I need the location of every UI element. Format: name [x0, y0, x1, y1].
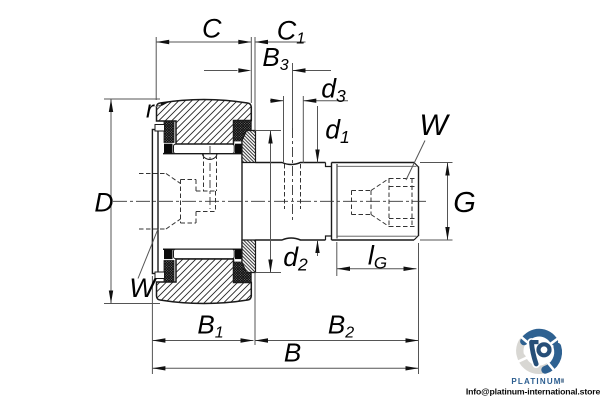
left crescent gray	[520, 338, 526, 359]
end chamfer bottom	[414, 236, 419, 241]
B2 dim	[255, 340, 419, 342]
seal bottom-right	[234, 262, 252, 283]
D arrows	[109, 99, 113, 112]
relief groove top	[326, 163, 332, 167]
thread chamfer line	[336, 164, 338, 239]
d1 arrows	[315, 150, 319, 163]
lube hole axis vertical	[292, 128, 294, 222]
black retainer top-right	[235, 144, 244, 154]
bottom crescent gray	[522, 358, 549, 370]
svg-text:B: B	[284, 338, 301, 368]
B1 arrows	[152, 338, 165, 342]
lG arrows	[337, 267, 350, 271]
svg-text:C: C	[202, 14, 222, 44]
svg-text:r: r	[146, 97, 155, 124]
needle roller top	[174, 144, 235, 153]
B dim	[152, 367, 418, 369]
svg-text:Info@platinum-international.st: Info@platinum-international.store	[466, 386, 600, 396]
thread OD bottom	[332, 239, 415, 241]
washer lip top	[155, 125, 165, 132]
lG dim	[337, 268, 417, 270]
svg-text:D: D	[94, 188, 113, 218]
journal lube hole	[203, 155, 205, 192]
stud d1 section bottom line with dip	[256, 238, 326, 240]
seal bottom-left	[164, 261, 174, 283]
outer ring hatched section	[157, 100, 252, 145]
flange cross-hatched top	[242, 131, 256, 163]
socket hex rect	[388, 179, 390, 227]
seal top-left	[164, 121, 174, 143]
d3 arrows	[271, 99, 284, 103]
C arrows	[156, 40, 169, 44]
socket cone	[371, 179, 389, 191]
D dim	[110, 99, 112, 304]
flange cross-hatched bottom	[242, 240, 256, 273]
B arrows	[152, 366, 165, 370]
stud journal surface top	[163, 153, 242, 155]
relief groove bottom	[326, 236, 332, 240]
registered mark	[561, 379, 564, 383]
stud journal surface bottom	[163, 248, 242, 250]
thread OD top	[332, 162, 415, 164]
W right leader	[406, 141, 425, 181]
main centerline	[113, 200, 427, 202]
B3/hole center ext	[292, 63, 294, 128]
needle roller bottom	[174, 249, 235, 258]
end chamfer top	[414, 163, 419, 168]
journal hole axis	[209, 146, 211, 209]
B1 dim	[152, 340, 253, 342]
C1 arrow	[255, 40, 268, 44]
G dim	[447, 163, 449, 241]
B3 dim	[204, 70, 238, 72]
top crescent blue	[524, 333, 554, 342]
left end washer	[152, 130, 158, 274]
journal right face (flange left face)	[241, 141, 243, 263]
svg-text:W: W	[419, 109, 450, 142]
r leader arrowhead	[161, 101, 171, 106]
arrows	[109, 40, 450, 371]
stud lube hole dashed	[285, 164, 301, 209]
hidden stud bore left	[139, 155, 217, 230]
right crescent blue	[545, 347, 558, 370]
d3 dim	[270, 100, 284, 102]
r leader	[156, 105, 163, 107]
P letter white halo	[532, 342, 550, 364]
stud end face	[418, 167, 420, 237]
B2 arrows	[255, 338, 268, 342]
B3 arrows	[238, 68, 251, 72]
d1 dim vertical	[317, 106, 319, 163]
d3 ext lines	[283, 96, 285, 163]
ext line stud end	[418, 243, 420, 374]
washer lip bottom	[155, 272, 165, 279]
C extension left long	[155, 37, 157, 100]
hex socket hidden lines	[352, 179, 418, 227]
d2 dim vertical	[270, 131, 272, 273]
petal seams	[516, 336, 560, 372]
outer ring hatched section bottom	[157, 259, 252, 304]
svg-text:G: G	[453, 187, 476, 219]
P letter	[532, 342, 550, 364]
W left leader	[138, 229, 158, 279]
thread section left face	[331, 163, 333, 241]
d2 ext lines	[256, 130, 282, 132]
black retainer bottom-right	[235, 249, 244, 259]
svg-text:W: W	[129, 273, 157, 303]
journal lube hole mouth top	[203, 154, 218, 159]
ext right pair	[250, 37, 252, 103]
G arrows	[445, 163, 449, 176]
C1 tail	[255, 41, 306, 43]
seal top-right	[234, 121, 252, 142]
black retainer bottom-left	[164, 249, 173, 259]
thread root bottom	[337, 235, 417, 237]
socket small bore	[351, 191, 353, 215]
d2 arrows	[268, 131, 272, 144]
stud d1 section top line with lube groove dip	[256, 163, 326, 165]
svg-text:PLATINUM: PLATINUM	[511, 377, 561, 386]
C dim line	[156, 41, 251, 43]
thread root top	[337, 165, 417, 167]
black retainer top-left	[164, 144, 173, 154]
